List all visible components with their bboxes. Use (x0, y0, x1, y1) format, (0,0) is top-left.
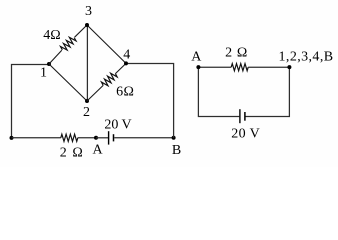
battery short plate (244, 112, 246, 121)
svg-text:3: 3 (85, 4, 92, 19)
node A (left circuit) (94, 136, 98, 140)
node 3 (bridge top) (85, 23, 89, 27)
resistor 4 ohm zigzag (60, 35, 77, 52)
node 1,2,3,4,B (right circuit) (287, 65, 291, 69)
resistor R 2ohm (bottom left branch) (61, 134, 78, 141)
resistor 2 ohm (right circuit) (231, 64, 248, 71)
svg-text:4Ω: 4Ω (43, 28, 60, 43)
node 1 (bridge left) (47, 62, 51, 66)
battery 20 V (right circuit): long plate (239, 109, 241, 123)
svg-text:B: B (172, 143, 181, 158)
wire: right rail from node 4 down to node B (126, 64, 174, 138)
junction dot bottom-left corner (10, 136, 14, 140)
wire edge 3-2 vertical (86, 25, 88, 101)
battery 20 V (left circuit): long plate (108, 131, 110, 144)
wire edge 1-2 (49, 64, 87, 101)
wire: left rail from node 1 to bottom-left corner (12, 65, 50, 139)
wire: battery to node B (114, 137, 173, 139)
svg-text:2: 2 (83, 105, 90, 120)
node A (right circuit) (196, 65, 200, 69)
wire (245, 67, 289, 117)
svg-text:4: 4 (123, 47, 130, 62)
svg-text:A: A (191, 50, 202, 65)
wire edge 3-4 (87, 25, 126, 63)
wire: top side right segment (248, 66, 289, 68)
wire: bottom wire from corner to 2-ohm resistor (12, 137, 61, 139)
wire: resistor to node A (78, 137, 96, 139)
svg-text:1,2,3,4,B: 1,2,3,4,B (279, 50, 334, 65)
resistor 6 ohm on edge 2-4: lead wires (87, 85, 103, 101)
svg-text:20 V: 20 V (104, 117, 131, 132)
svg-text:6Ω: 6Ω (116, 85, 134, 100)
svg-text:A: A (92, 143, 103, 158)
svg-text:1: 1 (40, 66, 47, 81)
battery short plate (113, 134, 115, 141)
resistor 4 ohm on edge 1-3: lead wires (49, 50, 62, 64)
resistor 6 ohm zigzag (101, 71, 118, 88)
node 2 (bridge bottom) (85, 99, 89, 103)
wire: right circuit rectangle (198, 67, 239, 117)
node B (172, 136, 176, 140)
wire: node A to battery (96, 137, 108, 139)
svg-text:2 Ω: 2 Ω (225, 46, 248, 61)
node 4 (bridge right) (124, 61, 128, 65)
svg-text:2 Ω: 2 Ω (60, 145, 84, 160)
wire: top side left segment (198, 66, 231, 68)
svg-text:20 V: 20 V (231, 127, 260, 142)
